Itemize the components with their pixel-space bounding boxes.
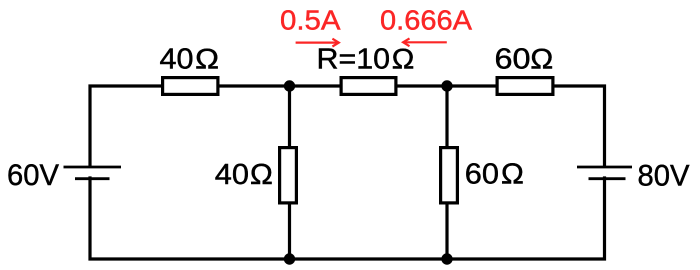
label R=10ohm — [317, 44, 415, 76]
svg-text:Ω: Ω — [250, 159, 274, 191]
wire upper loop: left branch up, top wire, right branch down — [90, 86, 605, 167]
svg-text:40: 40 — [215, 159, 249, 191]
node C bottom-left junction — [284, 253, 295, 264]
node D bottom-right junction — [441, 253, 452, 264]
svg-text:Ω: Ω — [501, 158, 525, 190]
label 60ohm top resistor — [495, 44, 554, 76]
resistor R3 60ohm horizontal — [497, 78, 553, 95]
label 40ohm middle resistor — [215, 159, 273, 191]
svg-text:0.666A: 0.666A — [380, 5, 472, 36]
resistor R 10ohm horizontal — [341, 78, 396, 95]
battery V2 80V short plate — [589, 177, 626, 180]
current arrow left (0.666A direction) — [403, 38, 447, 46]
svg-text:60V: 60V — [7, 159, 59, 192]
resistor R1 40ohm horizontal — [163, 78, 218, 95]
svg-text:0.5A: 0.5A — [280, 5, 341, 36]
battery V1 60V short plate — [75, 177, 110, 180]
battery V1 60V long plate — [64, 166, 122, 169]
svg-text:60: 60 — [465, 158, 499, 190]
battery V2 80V long plate — [577, 166, 632, 169]
node A top-left junction — [284, 80, 295, 91]
svg-text:Ω: Ω — [391, 44, 414, 76]
wire lower loop: left branch down, bottom wire, right branch up — [90, 176, 605, 259]
svg-text:60: 60 — [495, 44, 531, 76]
svg-text:Ω: Ω — [195, 44, 220, 76]
label 60ohm middle resistor — [465, 158, 524, 190]
svg-text:40: 40 — [160, 44, 194, 76]
resistor R4 60ohm vertical — [441, 148, 458, 203]
svg-text:R=10: R=10 — [317, 44, 391, 76]
wire middle-right vertical — [445, 86, 448, 259]
label 40ohm top resistor — [160, 44, 220, 76]
svg-text:80V: 80V — [638, 160, 690, 193]
node B top-right junction — [441, 80, 452, 91]
current arrow right (0.5A direction) — [296, 39, 339, 47]
wire middle-left vertical — [288, 86, 291, 259]
resistor R2 40ohm vertical — [280, 148, 297, 203]
svg-text:Ω: Ω — [530, 44, 554, 76]
